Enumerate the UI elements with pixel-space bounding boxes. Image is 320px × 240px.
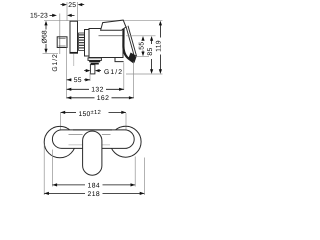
svg-text:85: 85 — [147, 47, 154, 55]
lever blade tip (solid) — [128, 53, 137, 63]
svg-text:55: 55 — [74, 77, 82, 84]
bar inner top edge — [69, 133, 83, 135]
dimension Ø68 column — [45, 25, 47, 30]
left escutcheon circle — [44, 126, 75, 157]
escutcheon thick bottom edge — [70, 52, 79, 54]
body seam line — [99, 35, 124, 37]
dimension 218 extension lines — [43, 145, 45, 196]
dimension 184 extension lines — [51, 150, 53, 187]
svg-text:25: 25 — [68, 2, 76, 9]
right escutcheon circle — [110, 126, 141, 157]
extension line from fitting front face — [66, 48, 68, 99]
dimension 25 extension lines — [66, 2, 68, 21]
svg-text:150±12: 150±12 — [79, 109, 102, 118]
dimension 55 horizontal — [67, 79, 72, 81]
fitting inner contour — [59, 37, 66, 39]
lever grip (side view) — [101, 20, 126, 30]
bottom reference line (outlet end) — [126, 73, 162, 75]
dimension 218 — [44, 192, 85, 194]
svg-text:162: 162 — [97, 95, 110, 102]
svg-text:G1/2: G1/2 — [52, 53, 59, 71]
body lower step (dome bottom) — [115, 58, 124, 62]
escutcheon (wall plate, edge view) — [70, 21, 78, 53]
svg-text:184: 184 — [88, 182, 101, 189]
bar inner bottom edge — [69, 144, 83, 146]
dimension 55 vertical column — [142, 39, 144, 42]
label G1/2 (outlet) arrows — [84, 70, 86, 72]
outlet nut band 1 — [89, 61, 100, 63]
union nut (ribbed) — [79, 33, 85, 51]
dimension 85 column — [151, 40, 153, 44]
dimension 132 — [67, 88, 89, 90]
outlet pipe — [90, 65, 95, 74]
reference line top (escutcheon top / 119 datum) — [44, 20, 162, 22]
dimension Ø68 bottom extension line — [43, 52, 59, 54]
union nut ribs — [79, 34, 85, 36]
lever blade outer contour (double line) — [126, 26, 135, 57]
outlet flange — [88, 58, 101, 61]
bar top edge over lever — [73, 129, 112, 131]
dimension 150±12 — [61, 111, 77, 113]
dimension 184 — [52, 184, 85, 186]
outlet nut band 2 — [91, 63, 99, 65]
lever (front view pill) — [83, 131, 102, 175]
svg-text:119: 119 — [156, 40, 163, 52]
body collar — [85, 30, 90, 57]
extension line from blade front — [123, 63, 125, 91]
S-connector square fitting — [57, 37, 67, 48]
dimension 25 arrows — [61, 4, 63, 6]
dimension 150±12 extension line left — [60, 113, 62, 134]
valve body — [89, 29, 123, 58]
svg-text:218: 218 — [88, 191, 101, 198]
svg-text:Ø68: Ø68 — [42, 30, 49, 43]
svg-text:G1/2: G1/2 — [104, 69, 123, 76]
svg-text:15-23: 15-23 — [30, 13, 48, 20]
dimension 150±12 extension line right — [125, 113, 127, 134]
wall line — [59, 14, 61, 55]
lever blade front edge (thick curved) — [123, 29, 134, 63]
dimension 15-23 arrows — [50, 14, 53, 16]
dimension 119 column — [159, 25, 161, 38]
svg-text:55: 55 — [138, 42, 145, 50]
extension line 55v/85 top — [126, 35, 156, 37]
extension line from pipe left edge — [89, 73, 91, 82]
extension line 55v bottom — [136, 56, 150, 58]
wall line crossing fitting — [59, 37, 61, 48]
extension line from blade tip — [133, 62, 135, 99]
svg-text:132: 132 — [91, 87, 104, 94]
inlet hidden line — [73, 54, 75, 67]
body bar (front) — [52, 130, 134, 149]
dimension 162 — [67, 97, 95, 99]
